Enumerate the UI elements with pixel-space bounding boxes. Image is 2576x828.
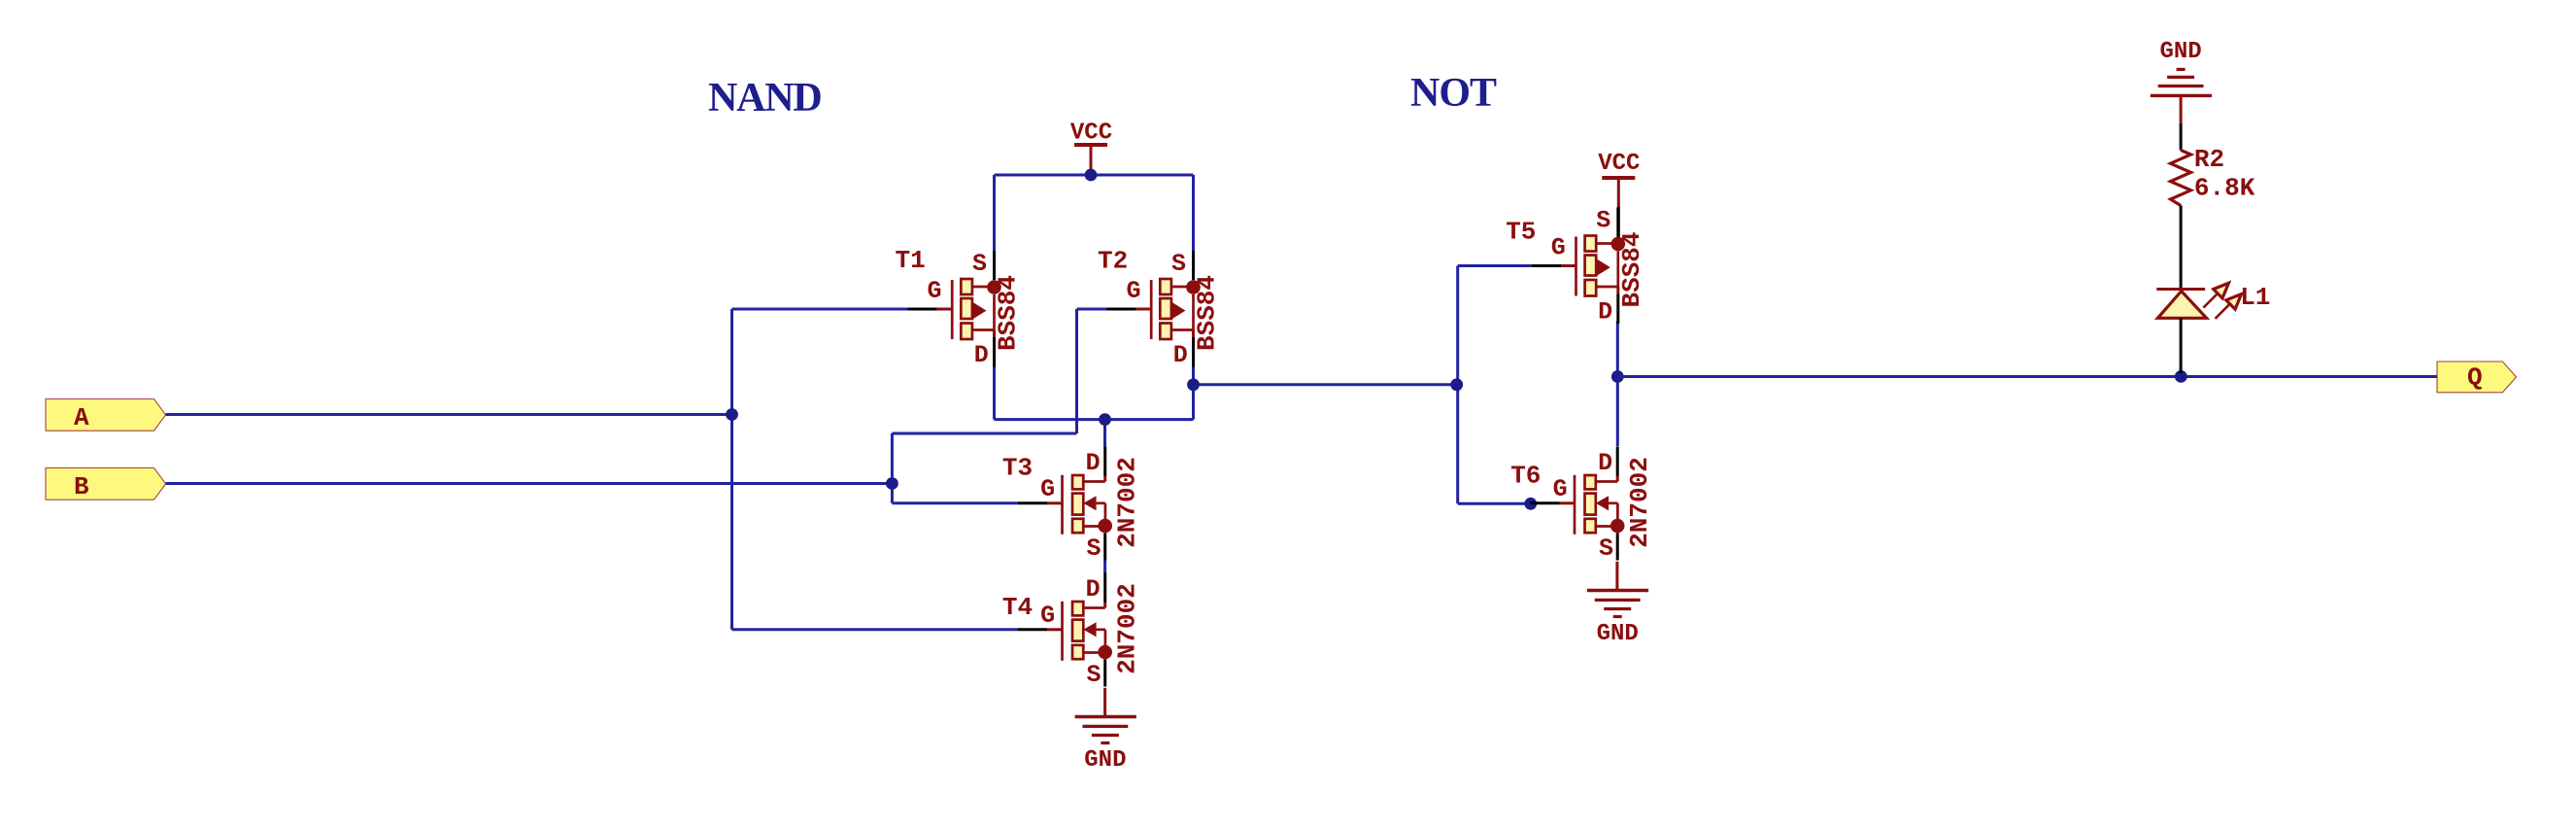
svg-text:D: D [1086,449,1101,477]
LED arrow 2 [2216,303,2231,319]
wire R2 to LED [2180,206,2183,289]
bulk dot [1098,519,1112,534]
svg-text:6.8K: 6.8K [2194,174,2255,203]
gate line [951,280,954,339]
wire net B vertical [891,433,894,503]
junction node A [726,408,738,421]
svg-text:G: G [1551,234,1566,262]
ground symbol below T4 [1103,688,1106,717]
pin G (gate) [1047,501,1063,504]
pin S (source) [993,251,996,280]
bulk dot [1186,280,1201,294]
wire NOT input to T5 gate [1458,264,1532,267]
svg-text:A: A [74,403,89,432]
wire net Q [1617,375,2437,378]
bulk link [1097,501,1105,504]
svg-text:GND: GND [1597,621,1639,647]
bulk dot [1610,519,1625,534]
GND bars [2151,94,2212,97]
channel bars [1160,279,1171,294]
pin D (drain) [1192,330,1195,338]
source stub / bulk link [1171,286,1194,289]
flag body [46,468,166,500]
LED arrow 1 [2203,293,2219,308]
transistor T6 [1510,446,1654,562]
svg-text:L1: L1 [2240,283,2270,312]
channel bars [1585,475,1596,489]
body arrow [1597,259,1610,276]
wire T5 drain down [1616,322,1619,447]
bulk dot [987,280,1001,294]
body arrow [1596,496,1609,510]
wire net A vertical [730,309,733,630]
svg-text:2N7002: 2N7002 [1113,583,1142,674]
svg-text:G: G [928,277,942,305]
wire net B to T3 gate [892,501,1017,504]
pin S (source) [1192,251,1195,280]
svg-text:2N7002: 2N7002 [1625,457,1654,548]
junction node B [886,477,898,490]
GND bars [1587,589,1648,592]
pin S (source) [1103,533,1106,560]
gate line [1150,280,1153,339]
transistor T3 [1002,446,1142,562]
pin D (drain) [1596,480,1617,483]
wire T3 drain up [1103,420,1106,447]
wire T1 drain down [993,364,996,420]
junction node NOT output [1611,370,1624,383]
wire NOT input to T6 gate [1458,502,1531,505]
svg-text:NAND: NAND [708,76,822,121]
svg-text:B: B [74,472,89,501]
wire T2 drain down [1192,364,1195,420]
svg-text:G: G [1553,475,1568,503]
bulk dot [1611,237,1626,252]
svg-text:T2: T2 [1098,247,1128,276]
pin G (gate) [1136,308,1152,311]
channel bars [1072,475,1083,489]
ground symbol below T6 [1615,562,1618,591]
svg-text:S: S [1596,207,1610,235]
junction node LED tap [2175,370,2187,383]
pin S (source) [1103,659,1106,686]
junction node NAND output [1187,378,1200,391]
svg-text:G: G [1127,277,1141,305]
pin D (drain) [1616,287,1619,294]
wire VCC2 stem black [1617,207,1620,237]
input flag B [46,468,166,502]
transistor T5 [1506,207,1646,327]
junction node T6 gate wire [1524,498,1537,510]
svg-text:D: D [1598,298,1612,327]
wire NAND output [1194,383,1457,386]
bulk link [1097,628,1105,631]
wire net B into T2 gate pin [1077,308,1107,311]
transistor T4 [1002,572,1142,688]
junction node VCC rail [1085,169,1098,182]
svg-text:VCC: VCC [1070,121,1112,147]
wire net A horizontal [166,413,732,416]
junction node NOT input [1450,378,1463,391]
svg-text:T3: T3 [1002,453,1033,482]
svg-text:GND: GND [1084,747,1126,774]
svg-text:NOT: NOT [1410,71,1497,116]
VCC bar [1074,143,1107,147]
transistor T1 [896,246,1023,369]
output flag Q [2437,362,2517,393]
svg-text:S: S [1599,535,1613,563]
resistor R2 [2171,145,2255,206]
svg-text:BSS84: BSS84 [1193,275,1222,351]
flag body [2437,362,2517,393]
pin D (drain) [1083,606,1104,609]
wire net B horizontal [166,482,893,485]
svg-text:D: D [974,341,989,369]
pin G (gate) [1561,264,1576,267]
LED L1 [2156,283,2270,319]
svg-text:D: D [1086,575,1101,604]
gate line [1575,237,1577,296]
body arrow [1172,302,1186,319]
VCC bar [1602,176,1635,180]
body arrow [973,302,987,319]
wire NAND drain rail [995,418,1194,421]
wire VCC rail top [995,174,1194,177]
pin D (drain) [993,330,996,338]
svg-text:BSS84: BSS84 [1617,231,1646,307]
svg-text:S: S [1087,661,1102,689]
body arrow [1083,496,1096,510]
VCC stem [1090,147,1093,169]
power symbol VCC (NOT) [1598,151,1640,207]
wire net A to T1 gate [732,308,908,311]
svg-text:G: G [1040,602,1055,630]
svg-text:R2: R2 [2194,145,2224,174]
input flag A [46,399,166,433]
bulk dot [1098,645,1112,660]
wire T3 source to T4 drain [1103,561,1106,574]
pin G (gate) [1560,501,1576,504]
svg-text:S: S [1087,535,1102,563]
svg-text:D: D [1173,341,1188,369]
body arrow [1083,622,1096,637]
junction node T3 drain [1099,413,1111,426]
wire net A to T4 gate [732,628,1018,631]
wire LED to node Q [2180,318,2183,373]
svg-text:GND: GND [2159,39,2201,65]
svg-text:G: G [1040,475,1055,503]
wire GND to R2 black [2180,123,2183,151]
wire VCC rail left drop to T1 source [993,175,996,251]
source stub / bulk link [972,286,995,289]
svg-text:T1: T1 [896,246,926,275]
power symbol VCC (NAND) [1070,121,1112,170]
svg-text:2N7002: 2N7002 [1113,457,1142,548]
channel bars [961,279,972,294]
svg-text:T4: T4 [1002,593,1033,622]
svg-text:T5: T5 [1506,218,1536,247]
GND bars [1075,715,1136,718]
wire net B over to T2 gate [892,432,1076,435]
wire VCC rail right drop to T2 source [1192,175,1195,251]
svg-text:T6: T6 [1510,462,1541,491]
transistor T2 [1098,247,1222,370]
gate line [1061,602,1064,661]
wire GND to R2 red [2180,97,2183,123]
pin G (gate) [937,308,953,311]
pin G (gate) [1047,628,1063,631]
svg-text:S: S [1171,250,1186,278]
svg-text:D: D [1598,449,1612,477]
svg-text:VCC: VCC [1598,151,1640,177]
ground symbol top right [2151,39,2212,95]
wire NOT input vertical [1456,266,1459,504]
pin S (source) [1616,533,1619,560]
pin S (source) [1616,208,1619,237]
channel bars [1585,236,1597,252]
svg-text:S: S [972,250,987,278]
source stub / bulk link [1596,242,1618,245]
VCC stem [1617,180,1620,207]
channel bars [1072,602,1083,615]
wire net B riser to T2 gate [1075,309,1078,433]
svg-text:BSS84: BSS84 [994,275,1023,351]
bulk link [1609,501,1617,504]
gate line [1061,475,1064,535]
svg-text:Q: Q [2467,363,2483,393]
gate line [1574,475,1576,535]
pin D (drain) [1083,480,1104,483]
flag body [46,399,166,431]
